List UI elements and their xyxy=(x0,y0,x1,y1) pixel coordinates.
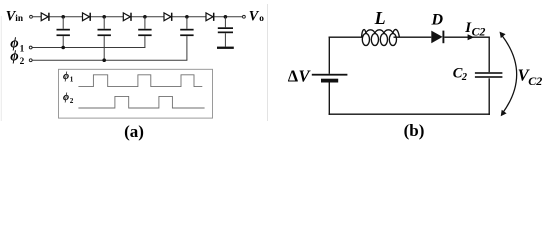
label D xyxy=(431,11,444,28)
figure a faint right border xyxy=(267,4,269,121)
terminal Vo open circle xyxy=(243,15,246,18)
wire top rail Vin to Vo xyxy=(33,16,242,18)
label dV xyxy=(288,67,312,86)
wire phi2 rail xyxy=(33,59,188,61)
current arrow IC2 xyxy=(468,34,475,40)
svg-text:o: o xyxy=(259,14,264,24)
diode D3 xyxy=(123,13,131,21)
svg-text:L: L xyxy=(374,8,386,28)
diode D5 xyxy=(206,13,214,21)
diode D1 xyxy=(41,13,49,21)
waveform phi1 xyxy=(78,75,202,87)
label C2 xyxy=(453,65,467,83)
node N4 junction dot xyxy=(185,15,189,19)
svg-text:2: 2 xyxy=(20,57,25,67)
terminal phi1 open circle xyxy=(29,46,32,49)
svg-text:(a): (a) xyxy=(124,122,144,141)
label phi1 waveform xyxy=(63,71,74,84)
wire b top rail left segment xyxy=(329,36,363,38)
label L xyxy=(374,8,386,28)
diode D4 xyxy=(164,13,172,21)
svg-text:1: 1 xyxy=(20,44,25,54)
label Vin xyxy=(6,8,24,24)
ground bar under C5 xyxy=(217,47,234,49)
label phi2 waveform xyxy=(63,92,74,105)
wire b top rail right segment xyxy=(444,36,489,38)
svg-text:1: 1 xyxy=(70,76,74,84)
wire b top rail mid segment xyxy=(394,36,432,38)
node N3 junction dot xyxy=(143,15,147,19)
wire phi1 rail xyxy=(33,47,146,49)
wire b left vertical xyxy=(328,37,330,74)
svg-text:2: 2 xyxy=(70,97,74,105)
VC2 curved arrow xyxy=(500,32,517,117)
label Vo xyxy=(249,9,264,25)
wire b left vertical lower xyxy=(328,83,330,115)
capacitor C5 output xyxy=(218,17,233,47)
svg-text:C2: C2 xyxy=(528,74,542,88)
capacitor C1 xyxy=(57,17,70,48)
caption (a) xyxy=(124,122,144,141)
capacitor C3 xyxy=(138,17,151,48)
label phi2 xyxy=(10,48,24,67)
node N1 junction dot xyxy=(61,15,65,19)
diode D2 xyxy=(83,13,91,21)
wire b right vertical upper xyxy=(488,37,490,73)
capacitor C2 xyxy=(475,72,503,78)
svg-text:ϕ: ϕ xyxy=(63,71,69,82)
terminal phi2 open circle xyxy=(29,59,32,62)
node C1-phi1 junction dot xyxy=(61,46,65,50)
svg-text:Δ: Δ xyxy=(288,67,299,86)
label phi1 xyxy=(10,36,24,55)
wire b right vertical lower xyxy=(488,78,490,115)
battery source dV top plate xyxy=(312,74,348,76)
capacitor C2 xyxy=(98,17,111,60)
diode D filled xyxy=(431,31,443,44)
svg-text:ϕ: ϕ xyxy=(63,92,69,103)
node C2-phi2 junction dot xyxy=(102,58,106,62)
svg-text:in: in xyxy=(15,14,24,24)
terminal Vin open circle xyxy=(30,15,33,18)
battery source dV bottom plate xyxy=(321,79,338,83)
node N2 junction dot xyxy=(102,15,106,19)
capacitor C4 xyxy=(180,17,193,60)
svg-text:C2: C2 xyxy=(472,25,486,39)
label VC2 xyxy=(518,65,543,88)
node N5 junction dot xyxy=(224,15,228,19)
svg-text:D: D xyxy=(431,11,444,28)
svg-text:(b): (b) xyxy=(404,121,425,140)
wire b bottom rail xyxy=(329,113,490,115)
svg-text:V: V xyxy=(249,9,260,25)
waveform phi2 xyxy=(78,96,204,108)
label IC2 xyxy=(464,20,485,39)
figure a faint left border xyxy=(0,16,2,121)
clock waveform box xyxy=(59,69,213,118)
svg-text:ϕ: ϕ xyxy=(10,48,18,64)
inductor L coil xyxy=(362,29,400,45)
svg-text:2: 2 xyxy=(461,72,467,83)
caption (b) xyxy=(404,121,425,140)
